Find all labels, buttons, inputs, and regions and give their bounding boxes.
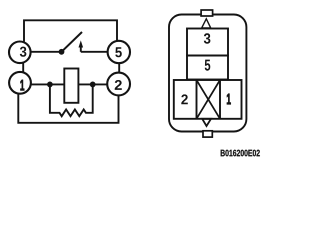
pin label 5 [115, 47, 122, 57]
connector bottom tab [203, 131, 212, 137]
wire coil row (pin 1 to pin 2) [30, 83, 108, 85]
wire switch right segment (arrow to pin 5) [81, 51, 109, 53]
resistor R1 (parallel with coil) [50, 84, 93, 116]
pin label 2 [115, 80, 122, 90]
cavity divider left [196, 80, 198, 119]
node junction dot left [47, 82, 53, 88]
terminal circle 3 [9, 42, 31, 64]
connector keying triangle bottom [202, 119, 211, 126]
wire switch left segment (pin 3 to contact) [30, 51, 61, 53]
connector top tab [201, 10, 213, 16]
cavity label 2 [181, 94, 187, 104]
pin label 1 [20, 80, 24, 90]
cavity label 5 [205, 60, 211, 71]
wire stub pin3 to pin1 [22, 63, 24, 73]
connector keying triangle top [202, 19, 211, 28]
figure code label [221, 150, 260, 157]
switch arrowhead [79, 40, 84, 47]
terminal circle 1 [9, 72, 31, 94]
wire bottom U (pin1 bottom to pin2 bottom) [18, 93, 118, 123]
blocked cavity X stroke 1 [197, 80, 221, 119]
node junction dot right [90, 82, 96, 88]
blocked cavity X stroke 2 [197, 80, 221, 119]
switch arrow stub [80, 46, 82, 52]
cavity box 3 [187, 29, 228, 56]
wire stub pin5 to pin2 [118, 63, 120, 74]
pin label 3 [20, 47, 27, 57]
cavity row box (2 / X / 1) [174, 80, 242, 119]
node switch contact dot [59, 49, 65, 55]
cavity label 1 [227, 94, 231, 104]
cavity label 3 [204, 33, 211, 43]
connector outer body [169, 15, 246, 132]
wire top loop from pin 3 to pin 5 [24, 20, 117, 41]
switch S1 arm (open) [62, 32, 83, 52]
cavity box 5 [187, 56, 228, 80]
terminal circle 5 [108, 41, 130, 63]
relay coil K1 box [64, 69, 78, 103]
cavity divider right [219, 80, 221, 119]
terminal circle 2 [107, 73, 130, 96]
